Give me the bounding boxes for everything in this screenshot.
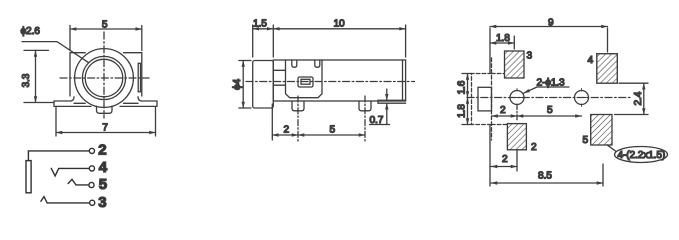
svg-text:2: 2 [531, 142, 537, 153]
svg-text:2: 2 [502, 154, 508, 165]
pin 4 terminal circle [89, 166, 94, 171]
dimension 0.7 leader arrows [370, 89, 390, 125]
dimension 1.5 (top) [253, 25, 274, 57]
top notch 2 [315, 60, 320, 67]
side view main body [273, 60, 405, 101]
front view body bottom edge (interrupted by boss circle) [74, 102, 138, 104]
svg-text:ϕ4: ϕ4 [232, 78, 243, 90]
leg 1 [292, 101, 304, 111]
svg-text:4: 4 [99, 159, 108, 176]
inner cavity outline [286, 60, 323, 98]
pad 4 (hatched) [597, 54, 618, 83]
svg-text:2: 2 [284, 125, 290, 136]
mounting ledge top edges [54, 100, 157, 102]
dimension 1.6 (left upper, rotated) [462, 74, 472, 125]
dimension phi4 (left) [239, 61, 251, 109]
small solid rect (barrel opening seen from below) [478, 87, 492, 111]
svg-text:7: 7 [102, 122, 108, 133]
svg-text:2: 2 [500, 105, 506, 116]
svg-text:1.6: 1.6 [457, 80, 468, 94]
dashed outline top toward pad 3 [492, 73, 505, 75]
pin 3 terminal circle [90, 200, 95, 205]
svg-text:3: 3 [527, 51, 533, 62]
bezel (front barrel) [253, 61, 274, 109]
front view body outline [70, 53, 142, 96]
svg-text:5: 5 [102, 19, 108, 30]
horizontal centerline of front view [60, 77, 149, 79]
bottom right flat tab [378, 100, 406, 103]
neck lines between bezel and cavity [273, 70, 285, 85]
inner hole circle [85, 59, 123, 97]
pin 5 terminal circle [89, 182, 94, 187]
dimension 2 (hole 1 from edge) [492, 115, 518, 117]
top notch 1 [292, 60, 297, 67]
svg-text:1.5: 1.5 [253, 18, 267, 29]
svg-text:5: 5 [547, 105, 553, 116]
svg-text:9: 9 [548, 18, 554, 29]
dimension 10 (top) [273, 25, 405, 57]
dimension 1.8 (top small) [490, 36, 514, 49]
hole 2 center marks [577, 89, 586, 107]
svg-text:2-ϕ1.3: 2-ϕ1.3 [537, 78, 566, 89]
dimension 8.5 (bottom) [491, 164, 603, 186]
bracket right bend [138, 97, 142, 101]
svg-text:0.7: 0.7 [370, 115, 384, 126]
bracket strip bottom and ends [54, 101, 157, 106]
hole 1 [510, 91, 524, 105]
svg-text:4: 4 [588, 55, 594, 66]
svg-text:8.5: 8.5 [538, 171, 552, 182]
dimension 2.4 (right) [615, 83, 649, 114]
hole 2 [575, 91, 589, 105]
side view horizontal centerline [246, 81, 415, 83]
ring circle [82, 56, 125, 99]
svg-text:5: 5 [330, 125, 336, 136]
svg-text:2.4: 2.4 [633, 91, 644, 105]
dimension 3.3 (left of front view) [24, 50, 53, 102]
boss outer circle [75, 49, 134, 108]
pin 4 switch contact and wire [51, 168, 89, 176]
footprint horizontal centerline [467, 97, 630, 99]
pad 2 (hatched) [507, 124, 526, 150]
leg 2 centerline [364, 96, 366, 141]
leg 2 [359, 101, 371, 111]
leg 1 centerline [297, 96, 299, 141]
vertical centerline of front view [103, 32, 105, 118]
svg-text:1.8: 1.8 [496, 33, 510, 44]
pad 5 (hatched) [591, 115, 612, 146]
svg-text:10: 10 [334, 18, 346, 29]
dimension 5 (top of front view) [70, 26, 142, 51]
svg-text:5: 5 [99, 176, 107, 193]
label 2-phi1.3 leader [524, 87, 570, 93]
dashed bezel outline rectangle [472, 74, 492, 125]
sleeve contact rectangle [26, 161, 31, 193]
svg-text:1.8: 1.8 [457, 104, 468, 118]
svg-text:2: 2 [98, 141, 106, 158]
dashed body left edge [491, 58, 493, 140]
inner wall near right edge [402, 60, 404, 100]
pin 3 switch contact and wire [41, 197, 89, 203]
bottom tab [97, 106, 113, 113]
svg-text:4-(2.2x1.5): 4-(2.2x1.5) [618, 150, 666, 161]
contact window outer [298, 77, 313, 87]
wire from sleeve to pin 2 [28, 151, 89, 161]
svg-text:3.3: 3.3 [21, 73, 32, 87]
footprint left extension line (long) [489, 28, 491, 186]
hole 1 vertical dash extension [516, 105, 518, 122]
pad 3 (hatched) [505, 51, 525, 78]
pin 5 switch contact and wire [68, 179, 88, 185]
dimension 2 and 5 (bottom of side view) [272, 104, 365, 140]
dimension 5 (hole spacing) [517, 115, 582, 117]
dimension 7 (bottom of front view) [56, 108, 156, 137]
svg-text:3: 3 [98, 194, 106, 211]
contact window inner [301, 79, 310, 84]
bracket left bend [71, 97, 75, 101]
hole 1 center marks [513, 89, 522, 107]
dimension 9 (top) [490, 27, 608, 53]
svg-text:5: 5 [583, 135, 589, 146]
dimension 2 (pad 2 center) [491, 151, 517, 172]
svg-text:ϕ2.6: ϕ2.6 [21, 26, 41, 37]
pin 2 terminal circle [89, 148, 94, 153]
label phi2.6 leader [22, 42, 89, 63]
right side notch [138, 63, 140, 92]
label 4-(2.2x1.5) balloon [607, 145, 668, 163]
dashed outline bottom toward pad 2 [492, 124, 508, 126]
